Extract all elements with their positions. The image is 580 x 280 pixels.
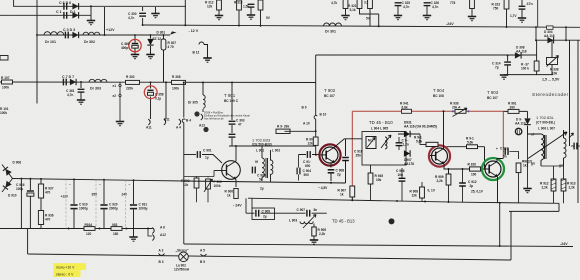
capacitor 47n: [519, 6, 526, 9]
highlight mono: [54, 263, 87, 270]
node dot x=37 y=35: [36, 34, 38, 36]
capacitor C7: [63, 79, 66, 86]
dashed divider x=66: [65, 179, 67, 228]
svg-text:B 12: B 12: [193, 51, 200, 55]
wire vertical x=74 C919: [73, 179, 75, 228]
red circle mark around C358: [144, 86, 157, 99]
resistor R935: [111, 227, 122, 231]
capacitor C910: [342, 158, 349, 161]
transistor T901: [214, 161, 240, 180]
capacitor C916 electrolytic: [27, 191, 34, 196]
svg-text:TD 45 - B10: TD 45 - B10: [369, 120, 393, 125]
label A arrow: [569, 133, 574, 138]
resistor R905: [312, 227, 316, 236]
wire vertical x=41 R937 R936: [40, 179, 42, 229]
capacitor C913: [502, 151, 505, 153]
diode D6: [72, 3, 78, 9]
wire supply bottom rail y=228.5: [0, 228, 153, 230]
wire T901 emitter: [235, 180, 237, 188]
resistor R951 5.6k: [467, 145, 478, 149]
tuning arrow through coils: [528, 132, 567, 159]
wire decoder box top y=55: [316, 54, 537, 56]
diode D910: [2, 179, 13, 193]
coil L907: [564, 138, 567, 158]
wire horizontal y=211.4: [509, 210, 559, 212]
svg-text:10n: 10n: [398, 173, 404, 177]
node dot x=104.5 y=35: [104, 34, 106, 36]
svg-text:L 903: L 903: [289, 219, 297, 223]
main bus y=25..27: [143, 25, 580, 27]
wire main audio line y=82: [0, 81, 316, 84]
ground coil area: [527, 134, 529, 188]
wire vertical x=232 C303: [231, 83, 233, 147]
inductor Dr302: [83, 32, 100, 35]
svg-text:2,2k: 2,2k: [569, 186, 575, 190]
ground rail left: [500, 75, 508, 79]
ground under C931: [129, 237, 137, 241]
svg-text:25n: 25n: [356, 153, 362, 157]
node dot T901 collector top: [235, 145, 237, 147]
ground under e2: [116, 122, 124, 126]
dark red circle T902: [319, 144, 340, 165]
svg-text:TD 45 - B13: TD 45 - B13: [332, 219, 355, 224]
resistor R910: [470, 167, 481, 171]
svg-text:2,2k: 2,2k: [542, 186, 548, 190]
ground stub x=155.5: [155, 7, 157, 13]
capacitor C325: [395, 3, 402, 6]
wire vertical x=537.7 top: [537, 0, 539, 28]
ground under C302: [247, 15, 255, 19]
node dot x=237?: [231, 82, 233, 84]
ground under R324: [468, 17, 476, 21]
wire vertical x=21.4: [20, 179, 22, 229]
resistor R322: [368, 0, 373, 9]
arrow -12V: [170, 31, 177, 34]
inductor Dr305: [203, 95, 205, 108]
dashed divider x=125.5: [125, 180, 127, 228]
wire vertical x=150.5 down: [150, 83, 152, 120]
connector B11 arc: [164, 119, 166, 125]
connector A5 arc: [201, 254, 207, 256]
wire stub to A12: [148, 229, 152, 237]
module box TD45-B10: [362, 132, 406, 166]
capacitor C6: [64, 3, 67, 10]
wire module box bottom long: [184, 244, 573, 247]
coil L906: [541, 134, 544, 160]
svg-text:gn: gn: [559, 164, 563, 168]
wire -24V bottom line: [248, 198, 559, 203]
svg-text:M L: M L: [368, 139, 374, 143]
node dot 185.3: [184, 24, 186, 26]
zener SZ12: [150, 35, 152, 39]
wire R310 riser: [184, 0, 186, 25]
svg-text:gn: gn: [531, 162, 535, 166]
resistor R950 5.6k: [426, 142, 438, 146]
resistor R337: [536, 55, 538, 61]
wire vertical x=578 right edge: [577, 40, 579, 203]
lamp La902: [179, 252, 189, 262]
svg-text:D 301: D 301: [157, 31, 166, 35]
svg-text:2,2k: 2,2k: [437, 179, 443, 183]
red wire horizontal: [352, 110, 503, 112]
connector A4 arc: [179, 119, 181, 125]
diode D908: [2, 165, 13, 179]
ground under C360: [131, 55, 139, 59]
wire C6 D6 row y=6.3: [37, 5, 186, 7]
capacitor C314: [507, 55, 509, 61]
wire vertical x=30.4 C916: [29, 179, 31, 229]
resistor R312: [217, 0, 222, 10]
wire decoder box left x=315.7: [316, 55, 320, 155]
svg-text:AA 116 (OA 90,1N465): AA 116 (OA 90,1N465): [404, 124, 437, 128]
resistor R912: [551, 179, 556, 191]
capacitor C909: [256, 210, 259, 217]
wire vertical x=566: [565, 27, 567, 40]
wire T904 collector up: [443, 111, 445, 148]
capacitor C326: [424, 3, 431, 6]
transistor T904: [430, 148, 448, 164]
highlight stereo: [54, 270, 81, 277]
wire module top y=146: [229, 145, 316, 147]
resistor R945: [368, 173, 373, 184]
resistor R936: [38, 211, 43, 225]
potentiometer P901: [206, 179, 211, 189]
capacitor C907: [307, 210, 310, 217]
svg-text:0, 1V: 0, 1V: [428, 189, 436, 193]
inductor Dr303: [89, 79, 107, 82]
resistor R908: [420, 187, 425, 198]
dashed divider x=96: [95, 180, 97, 229]
ground under C361: [77, 100, 85, 104]
svg-text:1k: 1k: [340, 193, 344, 197]
resistor R311: [237, 0, 242, 10]
svg-text:100: 100: [471, 173, 477, 177]
resistor R318: [276, 129, 290, 133]
capacitor ground 47n: [518, 18, 526, 22]
wire y=40 right: [536, 39, 580, 41]
wire C904 stub: [298, 155, 300, 181]
capacitor C901: [184, 154, 196, 156]
wire T903 emitter down: [497, 177, 499, 203]
potentiometer R338: [547, 58, 558, 65]
red wire vertical left: [351, 111, 353, 186]
resistor R913: [561, 179, 566, 191]
diode D304: [547, 37, 553, 43]
wire supply rail y=179: [13, 179, 184, 182]
inductor Dr301: [324, 23, 342, 26]
coil L904 box: [366, 137, 376, 149]
red circle mark around C360: [129, 39, 141, 51]
wire y=209.5: [246, 198, 327, 213]
wire top-left bend: [14, 0, 37, 6]
svg-text:5,6k: 5,6k: [467, 140, 473, 144]
diode D7: [70, 79, 76, 85]
wire y=55.5 decoder top handled elsewhere: [536, 40, 538, 55]
ground under C325: [394, 16, 402, 20]
resistor R961: [508, 109, 519, 113]
wire +12V vertical x=104.5: [104, 7, 106, 35]
capacitor C931 electrolytic: [130, 205, 137, 209]
wire stub x=91 down to ground: [90, 6, 92, 20]
connector curl B10/A10: [314, 115, 317, 119]
coil L905 trimmer: [381, 135, 391, 148]
node dots audio line: [150, 81, 152, 83]
small box left edge: [0, 56, 8, 61]
wire vertical x=345.5: [345, 139, 347, 156]
node dot red line T904: [443, 110, 445, 112]
ground under R312: [215, 16, 223, 20]
diode D1: [72, 12, 78, 18]
inductor Dr101: [44, 32, 64, 35]
connector A11 arc: [148, 119, 150, 125]
capacitor C919 electrolytic: [70, 205, 77, 209]
resistor R308: [172, 80, 186, 84]
coil L903: [300, 222, 313, 224]
dark red circle T904: [429, 145, 450, 166]
wire T901 base bias row: [184, 171, 214, 178]
wire vertical x=203 Dr305: [202, 83, 204, 113]
svg-text:R 910: R 910: [468, 163, 477, 167]
resistor R302: [126, 80, 140, 84]
wire x=569.5: [569, 40, 571, 146]
diode D907: [404, 150, 410, 156]
wire vertical left bus x=37: [36, 0, 38, 104]
svg-text:400p: 400p: [121, 46, 128, 50]
resistor R911: [516, 163, 521, 173]
transistor T902: [320, 147, 338, 163]
transistor T903: [485, 147, 502, 177]
capacitor C914: [307, 151, 310, 158]
resistor R107: [2, 80, 13, 84]
resistor R320: [343, 0, 348, 9]
capacitor C300: [139, 13, 146, 16]
ground under R320: [341, 16, 349, 20]
wire vertical x=536: [535, 27, 537, 40]
wire Dr101 row y=35: [37, 34, 170, 36]
wire vertical x=166 down: [165, 83, 167, 120]
svg-text:12k: 12k: [412, 194, 418, 198]
node dot T902 base: [315, 154, 317, 156]
svg-text:L 904 L 905: L 904 L 905: [371, 127, 388, 131]
resistor R941: [402, 109, 412, 113]
wire vertical x=511: [510, 211, 512, 260]
node dots bottom rail: [68, 228, 70, 230]
wire C300 top lead: [142, 7, 144, 11]
wire C314 R337 rail: [504, 74, 553, 76]
capacitor C358 electrolytic: [148, 90, 154, 95]
wire T902 emitter chain: [330, 164, 332, 168]
wire L907 stubs: [563, 130, 565, 166]
connector arc A4 on x=183.8: [182, 119, 185, 123]
svg-text:2µ: 2µ: [470, 184, 474, 188]
resistor R909: [446, 174, 451, 185]
svg-text:10k: 10k: [376, 178, 382, 182]
wire C1 D1 row y=15.3: [0, 14, 91, 16]
resistor R323: [504, 0, 509, 9]
resistor R937: [38, 184, 43, 198]
svg-text:C 907: C 907: [297, 208, 306, 212]
diode D308: [515, 52, 521, 58]
svg-text:5n: 5n: [503, 155, 507, 159]
resistor R934: [84, 227, 95, 231]
svg-text:5,6k: 5,6k: [416, 139, 422, 143]
node dots -24V line: [396, 200, 398, 202]
wire T902 collector diagonal: [334, 139, 362, 148]
resistor R907: [350, 186, 355, 197]
diode D97: [524, 118, 530, 124]
box C909: [252, 208, 275, 220]
circled 7: [203, 127, 208, 132]
svg-text:SZ 12: SZ 12: [153, 37, 162, 41]
resistor R321: [357, 0, 362, 9]
node dot x=315.7 y=131.3: [315, 130, 317, 132]
transformer L901 L902: [262, 146, 273, 182]
svg-text:2µ: 2µ: [337, 173, 341, 177]
capacitor C920 electrolytic: [100, 205, 107, 209]
capacitor C302: [248, 4, 255, 7]
resistor R324: [470, 0, 475, 9]
green circle T903: [482, 158, 504, 180]
resistor R307: [163, 35, 165, 39]
wire e1-e2: [119, 82, 121, 121]
capacitor C360 electrolytic: [134, 35, 136, 43]
node dot base x=183.8 audio line: [183, 82, 185, 84]
capacitor C906: [399, 178, 406, 181]
red wire vertical right: [502, 111, 504, 158]
svg-text:4 70: 4 70: [168, 45, 174, 49]
capacitor C361: [80, 82, 82, 88]
wire from R318 into decoder: [285, 130, 316, 132]
wire T901 collector: [235, 146, 237, 161]
svg-text:+: +: [496, 147, 498, 151]
wire center rail y=181: [184, 181, 346, 183]
ground under C326: [423, 16, 431, 20]
node dot C314: [507, 54, 509, 56]
wire emitter node to R909: [448, 169, 450, 174]
svg-text:2,2k: 2,2k: [319, 232, 325, 236]
svg-text:25, 0,1V: 25, 0,1V: [471, 190, 484, 194]
trimmer arrow L903: [303, 215, 316, 229]
resistor R906: [234, 189, 238, 199]
wire vertical x=133.5 C931: [133, 180, 135, 236]
svg-text:1,2n: 1,2n: [403, 142, 409, 146]
wire under L906: [540, 160, 542, 166]
capacitor C903: [252, 167, 255, 174]
wire module box left edge x=183.8: [183, 83, 185, 245]
node dot: [330, 182, 332, 184]
svg-text:2µ: 2µ: [263, 214, 267, 218]
connector A13 arc: [201, 114, 203, 120]
node dot x=81: [80, 81, 82, 83]
circled 6: [194, 111, 199, 116]
resistor R314: [258, 0, 263, 10]
capacitor C3: [65, 32, 68, 39]
svg-text:5n: 5n: [314, 208, 318, 212]
trimmer R938: [452, 108, 470, 117]
coil L906 core: [545, 135, 547, 159]
diode D3: [72, 32, 78, 38]
circled B marker: [389, 218, 395, 224]
wire vertical x=499.7: [499, 203, 501, 246]
svg-text:AA178: AA178: [404, 162, 414, 166]
wire top of coils: [528, 126, 542, 134]
node dot x=142.6 y=25: [142, 24, 144, 26]
node dots -12V rail: [134, 34, 136, 36]
diode D931: [404, 131, 410, 137]
capacitor C915 right edge: [574, 143, 577, 150]
fuse on bus: [547, 26, 554, 29]
resistor R906b: [313, 137, 318, 145]
wire pot R338 vertical: [551, 40, 553, 74]
node dots supply rail: [20, 178, 22, 180]
svg-text:C 913: C 913: [500, 147, 509, 151]
wire T903 collector: [497, 159, 503, 162]
wire T904 emitter: [444, 164, 449, 169]
capacitor C912 electrolytic: [459, 183, 466, 186]
wire vertical x=104 C920: [103, 180, 105, 229]
wire coil bottoms rail: [541, 165, 564, 167]
core circle marker: [515, 128, 521, 134]
svg-text:~ 4,5V: ~ 4,5V: [318, 186, 328, 190]
capacitor C908 electrolytic: [328, 170, 335, 173]
capacitor C904: [297, 168, 300, 175]
resistor R902: [194, 178, 199, 188]
wire vertical x=27.6: [27, 229, 29, 254]
wire C300 riser: [142, 18, 144, 25]
wire lamp line: [28, 254, 511, 260]
wire vertical x=559: [558, 203, 560, 211]
capacitor C303 twin: [229, 121, 236, 124]
capacitor C911: [396, 143, 403, 146]
ground at x=91: [87, 21, 95, 25]
connector A3 arc: [159, 254, 165, 256]
capacitor C1: [64, 12, 67, 19]
